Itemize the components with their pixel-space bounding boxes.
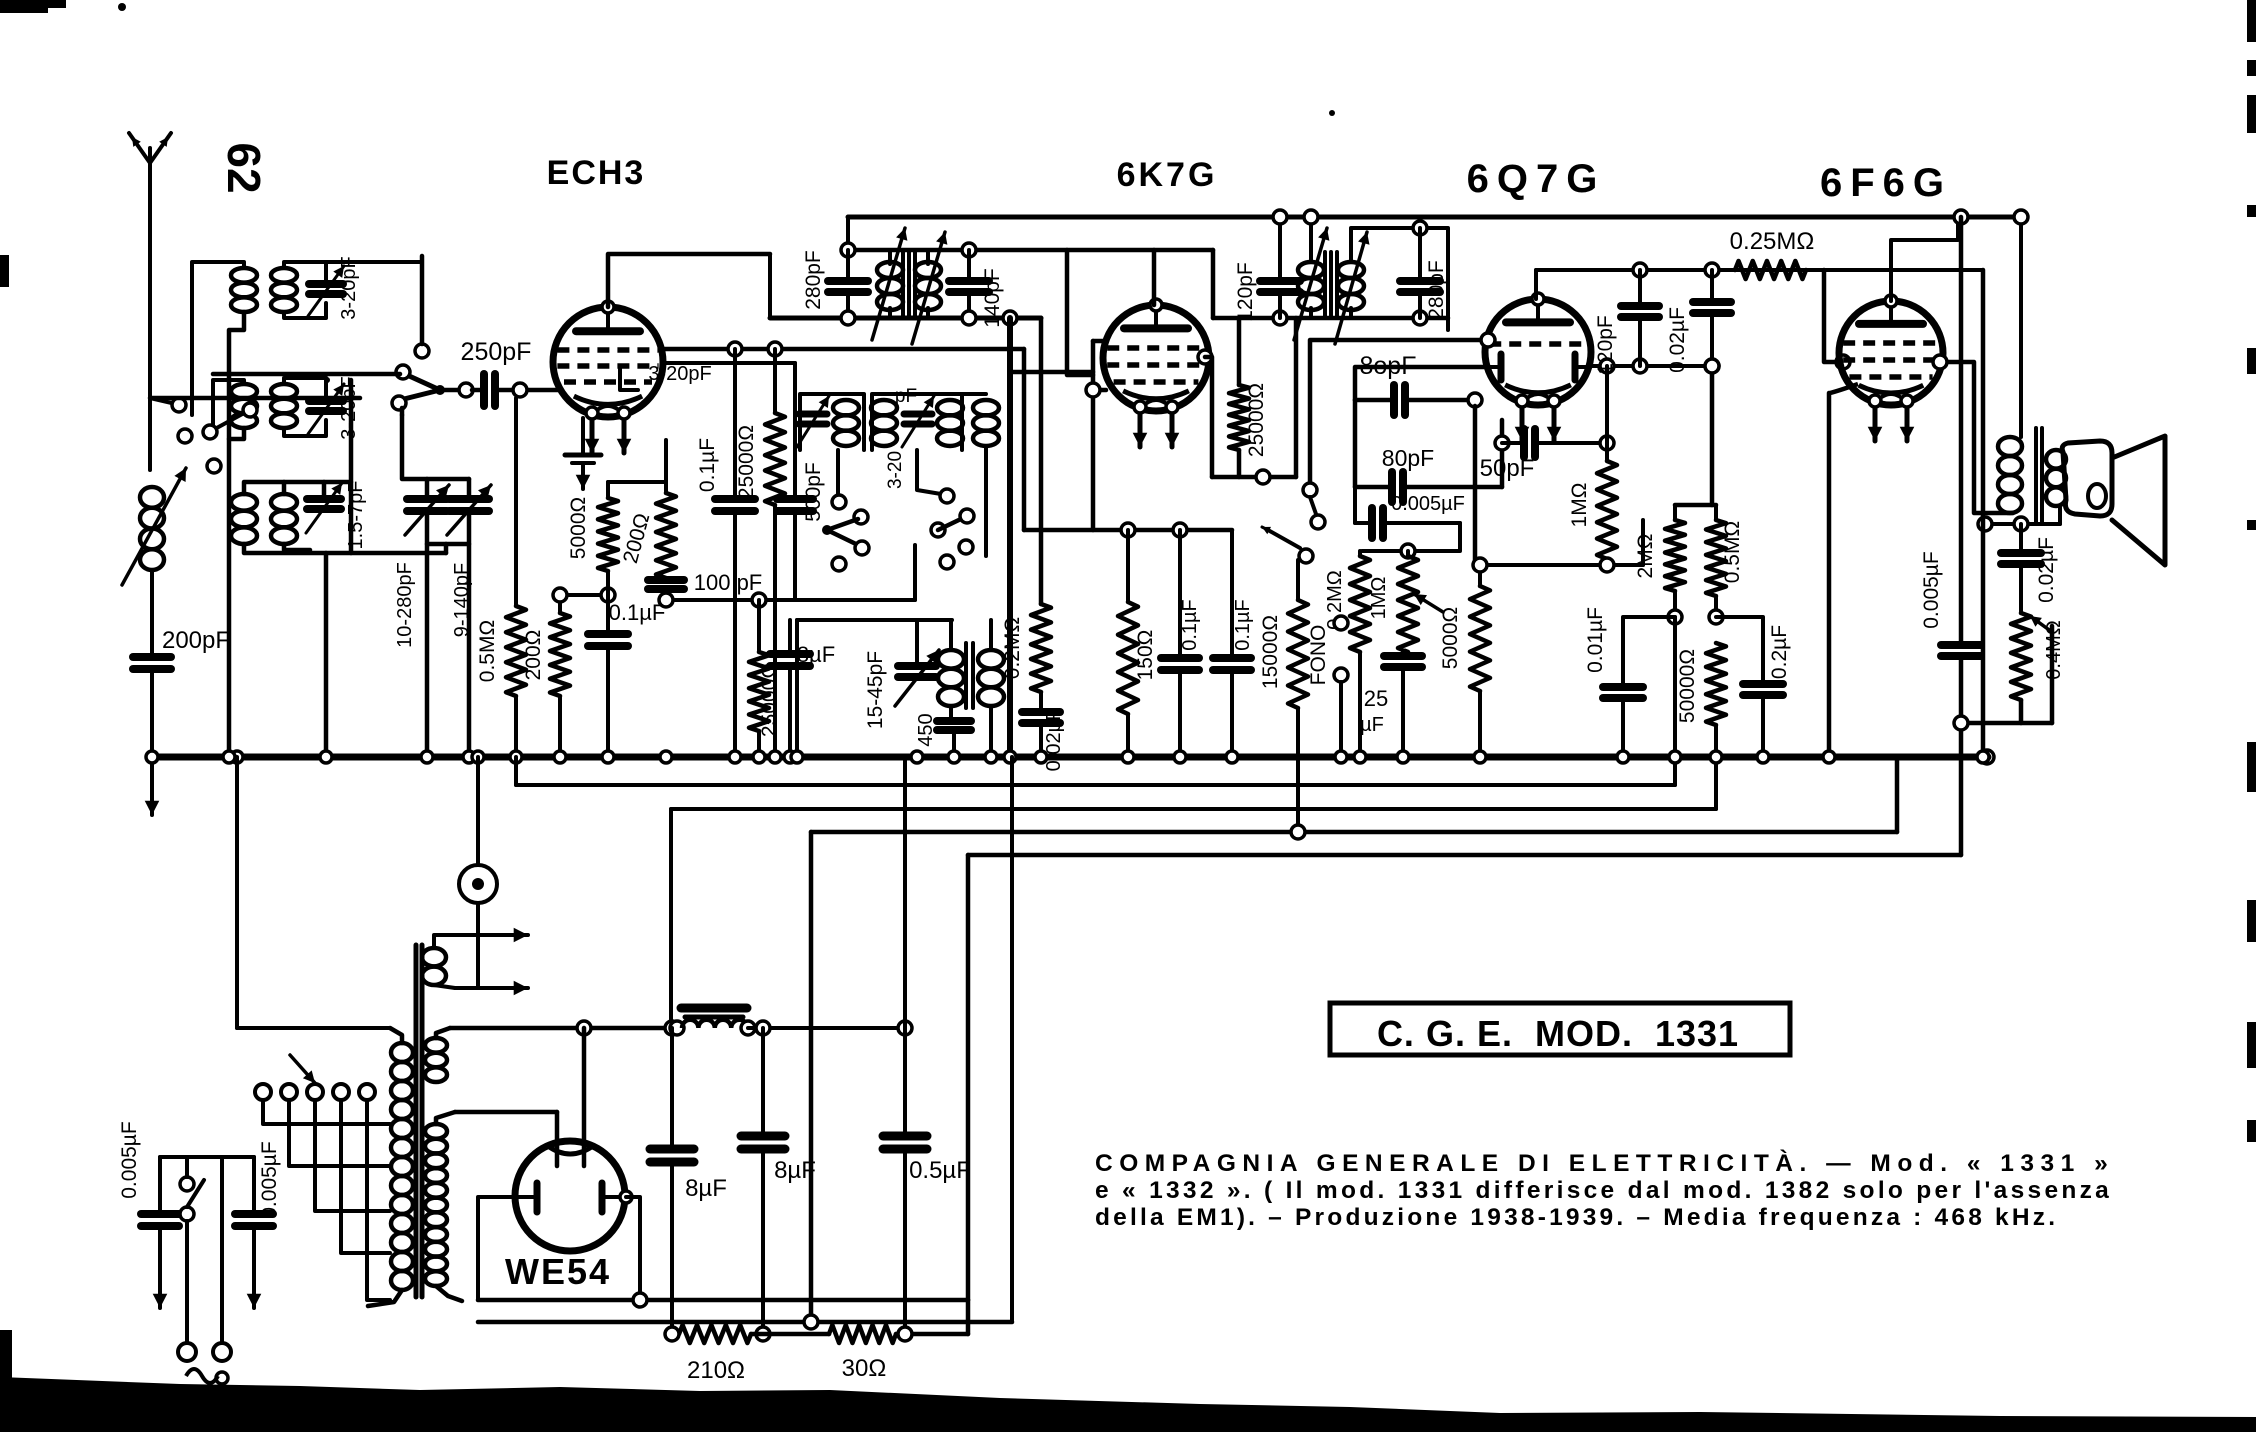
- trimmer C 15-45pF: [898, 662, 936, 670]
- heater arrow 2: [455, 986, 528, 990]
- transformer primary: [390, 1028, 402, 1043]
- svg-text:280pF: 280pF: [802, 250, 825, 310]
- contact band top: [415, 344, 429, 358]
- svg-text:8µF: 8µF: [774, 1157, 816, 1184]
- resistor R 2M: [1673, 505, 1677, 520]
- capacitor C 50pF: [1495, 436, 1509, 450]
- IF2 core: [1323, 252, 1327, 316]
- wire mains a: [185, 1157, 189, 1177]
- capacitor C 140pF: [967, 250, 971, 279]
- capacitor C 0.2uF: [1716, 617, 1763, 682]
- resistor R 15000: [1296, 560, 1300, 600]
- wire grid tops: [1675, 503, 1716, 508]
- wire diode left: [1355, 367, 1488, 400]
- IF1 primary: [888, 250, 892, 264]
- tube 6Q7G: [1485, 299, 1591, 405]
- output transformer secondary: [2046, 450, 2066, 469]
- resistor R 0.25M: [1712, 269, 1735, 271]
- svg-text:6K7G: 6K7G: [1117, 156, 1218, 194]
- resistor R 150 ohm: [1126, 530, 1130, 602]
- wire osc mid: [793, 553, 797, 599]
- svg-text:500pF: 500pF: [802, 462, 825, 522]
- svg-text:62: 62: [218, 142, 270, 193]
- capacitor C 0.1uF b: [733, 349, 737, 497]
- capacitor C 120pF nfb: [1638, 270, 1642, 304]
- wire top rail: [848, 215, 2017, 220]
- wire 6F6G cathode: [1830, 384, 1858, 393]
- wire L1: [514, 757, 518, 785]
- svg-text:25000Ω: 25000Ω: [758, 663, 781, 737]
- capacitor C 0.005uF mains b: [252, 1157, 256, 1212]
- capacitor C 0.02uF out: [2019, 524, 2023, 551]
- svg-text:50pF: 50pF: [1480, 455, 1535, 482]
- ground main: [150, 757, 154, 815]
- wire x1355 down: [1353, 487, 1357, 523]
- svg-text:WE54: WE54: [505, 1251, 611, 1292]
- capacitor C 0.01uF: [1623, 617, 1675, 685]
- resistor R 30 ohm: [751, 1332, 829, 1337]
- wire WE54 left plate: [478, 1197, 517, 1300]
- svg-text:8opF: 8opF: [1360, 352, 1417, 380]
- capacitor C 500pF: [793, 363, 797, 497]
- resistor R 1M vol pot: [1406, 551, 1410, 556]
- transformer HV winding lower: [436, 1112, 455, 1124]
- resistor R 25000 ohm a: [773, 349, 777, 413]
- tube 6F6G: [1839, 301, 1943, 405]
- wire ECH3 anode riser: [768, 254, 772, 318]
- wire WE54 right plate: [626, 1197, 640, 1300]
- switch row2 arm: [213, 412, 246, 430]
- svg-text:0.005µF: 0.005µF: [118, 1121, 141, 1198]
- wire mains b: [220, 1157, 224, 1344]
- osc lower frame: [797, 618, 952, 622]
- osc coil A: [833, 400, 859, 415]
- svg-text:50000Ω: 50000Ω: [1676, 649, 1699, 723]
- svg-text:10-280pF: 10-280pF: [394, 562, 416, 648]
- switch mains: [180, 1177, 194, 1191]
- svg-text:0.1µF: 0.1µF: [1232, 599, 1254, 651]
- svg-text:25000Ω: 25000Ω: [1245, 383, 1268, 457]
- svg-text:8µF: 8µF: [797, 642, 835, 667]
- svg-text:0.01µF: 0.01µF: [1584, 607, 1607, 673]
- svg-text:15000Ω: 15000Ω: [1259, 615, 1282, 689]
- tube 6K7G: [1103, 305, 1209, 411]
- svg-text:9-140pF: 9-140pF: [451, 563, 473, 638]
- resistor R 5000 ohm: [606, 482, 610, 498]
- IF2 secondary top wire: [1351, 228, 1448, 330]
- switch AVC contacts: [1303, 483, 1317, 497]
- trimmer C 3-20 A: [799, 411, 827, 418]
- pilot lamp: [476, 757, 480, 866]
- trimmer C 3-20pF row1: [309, 280, 343, 288]
- wire y530: [1024, 528, 1232, 533]
- wire L4: [968, 853, 1961, 858]
- svg-text:1.5-7pF: 1.5-7pF: [345, 481, 367, 550]
- wire y270 grid line: [1536, 268, 1983, 272]
- wire B+ mid: [748, 1026, 905, 1030]
- svg-text:0.1µF: 0.1µF: [696, 438, 719, 492]
- wire 6K7G aux left: [1010, 370, 1093, 375]
- IF2 primary: [1309, 217, 1313, 262]
- scan artifact top-left corner: [0, 0, 48, 13]
- capacitor C 0.005uF mains a: [158, 1157, 162, 1212]
- wire x1475 down: [1473, 406, 1478, 565]
- svg-text:0.5MΩ: 0.5MΩ: [476, 620, 499, 682]
- resistor R 50000 b: [1706, 643, 1726, 725]
- svg-text:e « 1332 ». ( Il mod. 1331 dif: e « 1332 ». ( Il mod. 1331 differisce da…: [1095, 1177, 2112, 1204]
- capacitor C 250pF: [440, 388, 460, 393]
- wire rect fil: [455, 1110, 557, 1115]
- svg-text:0.1µF: 0.1µF: [609, 600, 666, 625]
- osc module A frame: [800, 394, 864, 450]
- svg-text:ECH3: ECH3: [547, 154, 646, 192]
- capacitor C 8uF osc: [788, 620, 792, 652]
- capacitor C 100pF: [648, 576, 684, 584]
- svg-text:30Ω: 30Ω: [842, 1355, 887, 1382]
- wire diode col2: [1500, 420, 1505, 487]
- wire x1012 down: [1010, 757, 1014, 1322]
- wire 6Q7G plate: [1590, 364, 1712, 368]
- capacitor C 200pF: [133, 653, 171, 661]
- IF1 bottom rail: [770, 316, 1041, 321]
- wire antenna down: [148, 398, 152, 470]
- resistor R 5000 cath: [1478, 565, 1482, 586]
- selector taps: [263, 1100, 390, 1124]
- svg-text:210Ω: 210Ω: [687, 1357, 745, 1384]
- wire row2 top rail: [213, 372, 400, 377]
- svg-text:0.02µF: 0.02µF: [2035, 537, 2058, 603]
- wire ECH3 topcap: [608, 254, 770, 307]
- svg-text:3-20pF: 3-20pF: [648, 363, 711, 385]
- osc coil E: [989, 620, 993, 650]
- svg-text:5000Ω: 5000Ω: [567, 497, 590, 559]
- wire 6K7G topcap: [1152, 250, 1157, 305]
- IF2 secondary: [1349, 308, 1353, 318]
- wire heavy column: [1007, 318, 1013, 757]
- wire y600: [666, 598, 915, 602]
- transformer core: [414, 945, 419, 1297]
- choke filter: [670, 1021, 684, 1035]
- wire cathode net: [560, 593, 608, 597]
- wire 200pF to bus: [150, 669, 154, 757]
- wire L2: [670, 785, 672, 809]
- svg-text:0.5µF: 0.5µF: [909, 1157, 971, 1184]
- speaker driver: [2062, 441, 2112, 516]
- resistor R 25000 ohm b: [757, 600, 761, 652]
- IF1 top wire: [848, 248, 1213, 253]
- svg-text:COMPAGNIA GENERALE DI ELETTRIC: COMPAGNIA GENERALE DI ELETTRICITÀ. — Mod…: [1095, 1149, 2114, 1177]
- capacitor C 0.02uF avc: [1022, 708, 1060, 716]
- wire mains col: [235, 757, 239, 1028]
- svg-text:5000Ω: 5000Ω: [1439, 607, 1462, 669]
- svg-text:0.02µF: 0.02µF: [1666, 307, 1689, 373]
- wire HV return: [478, 1320, 1012, 1325]
- switch osc contact a: [836, 450, 840, 495]
- box CGE model: [1330, 1003, 1790, 1055]
- transformer T3 primary+secondary: [231, 494, 257, 511]
- variable capacitor 10-280pF: [425, 479, 430, 497]
- ground ECH3 cathode: [581, 418, 585, 455]
- resistor R 200 ohm a: [558, 595, 562, 613]
- svg-text:0.1µF: 0.1µF: [1179, 599, 1201, 651]
- wire det to pot: [1362, 523, 1460, 551]
- svg-text:1MΩ: 1MΩ: [1368, 577, 1390, 620]
- switch osc arm2: [931, 523, 945, 537]
- resistor R 0.2M vol: [1358, 551, 1362, 556]
- svg-text:C. G. E. MOD. 1331: C. G. E. MOD. 1331: [1377, 1013, 1739, 1054]
- svg-text:FONO: FONO: [1307, 625, 1330, 686]
- svg-text:120pF: 120pF: [1594, 315, 1617, 375]
- resistor R 0.5M b: [1714, 505, 1718, 520]
- wire grid 6F6G: [1824, 270, 1841, 362]
- capacitor C 450: [937, 717, 971, 725]
- svg-text:250pF: 250pF: [461, 338, 532, 366]
- svg-text:200Ω: 200Ω: [522, 630, 545, 681]
- capacitor C 80pF b: [1355, 485, 1390, 490]
- capacitor C 280pF if2: [1418, 228, 1422, 279]
- wire ECH3 out2: [662, 361, 795, 365]
- wire plates bottom: [478, 1298, 968, 1303]
- wire ECH3 out1: [661, 347, 1024, 352]
- capacitor C 280pF if1: [846, 250, 850, 279]
- osc core: [964, 643, 968, 708]
- wire 6Q7G topcap: [1534, 270, 1538, 299]
- svg-text:pF: pF: [895, 386, 917, 407]
- scan artifact right edge marks: [2247, 0, 2256, 42]
- mains wire top: [237, 1026, 390, 1030]
- scan artifact left edge: [0, 255, 9, 287]
- capacitor C 120pF if2: [1278, 217, 1282, 279]
- osc module B frame: [872, 394, 962, 450]
- wire voicecoil: [2058, 506, 2062, 524]
- svg-text:15-45pF: 15-45pF: [864, 651, 887, 729]
- transformer T2 primary+secondary: [213, 380, 244, 430]
- capacitor C 0.5uF: [903, 1028, 907, 1134]
- selector arrow: [290, 1055, 315, 1083]
- output transformer primary: [1998, 437, 2022, 456]
- resistor R 0.5M ohm: [506, 606, 526, 696]
- wire grid2 down: [514, 398, 518, 606]
- IF2 bottom rail: [1213, 316, 1448, 321]
- heater winding top: [422, 948, 446, 966]
- svg-text:della EM1). – Produzione 1938-: della EM1). – Produzione 1938-1939. – Me…: [1095, 1204, 2058, 1231]
- wire antenna main: [150, 396, 360, 401]
- wire 6K7G plate: [1198, 350, 1212, 364]
- svg-text:200pF: 200pF: [162, 627, 230, 654]
- wire gang top: [402, 415, 469, 479]
- IF1 secondary: [926, 250, 930, 264]
- svg-text:6Q7G: 6Q7G: [1467, 157, 1606, 201]
- capacitor C 80pF a: [1355, 398, 1392, 403]
- svg-text:150Ω: 150Ω: [1134, 630, 1157, 681]
- osc coil B1: [871, 400, 897, 415]
- plug pins: [178, 1343, 196, 1361]
- wire tone: [1961, 721, 2052, 726]
- wire 2M down: [1673, 617, 1677, 785]
- trimmer C 3-20pF row2: [309, 397, 343, 405]
- transformer HV winding upper: [436, 1028, 450, 1038]
- variable capacitor 9-140pF: [467, 479, 472, 497]
- antenna: [129, 133, 171, 163]
- trimmer C 3-20 B: [904, 411, 932, 418]
- svg-text:0.5MΩ: 0.5MΩ: [1721, 521, 1744, 583]
- trimmer C 1.5-7pF: [307, 495, 341, 503]
- svg-text:280pF: 280pF: [1425, 260, 1448, 320]
- capacitor C 0.02uF coup: [1710, 270, 1714, 300]
- wire y565: [1475, 563, 1643, 567]
- svg-text:25000Ω: 25000Ω: [735, 425, 758, 499]
- capacitor C 25uF: [1384, 652, 1422, 660]
- svg-text:3-20pF: 3-20pF: [338, 256, 360, 319]
- wire 6F6G topcap: [1891, 217, 1958, 301]
- wire antenna to 200pF: [150, 570, 154, 655]
- svg-text:0.2µF: 0.2µF: [1768, 625, 1791, 679]
- wire x1355 mid: [1353, 400, 1358, 487]
- IF1 riser: [846, 217, 850, 250]
- speaker cone: [2112, 436, 2165, 565]
- scan artifact bottom band: [0, 1377, 2256, 1432]
- osc coil B2: [937, 400, 963, 415]
- wire L3: [811, 830, 1897, 835]
- svg-text:0.005µF: 0.005µF: [258, 1141, 281, 1218]
- wire 6Q7G grid left: [1310, 340, 1486, 482]
- resistor R 25000 screen: [1237, 318, 1242, 385]
- osc coil D: [949, 620, 953, 650]
- jack FONO: [1334, 616, 1348, 630]
- heater arrow 1: [435, 935, 437, 948]
- wire 5000 top: [608, 480, 666, 484]
- capacitor C 8uF b: [761, 1028, 765, 1134]
- svg-text:120pF: 120pF: [1234, 262, 1257, 322]
- wire OT B+: [2019, 222, 2023, 437]
- resistor R 1M diode load: [1605, 366, 1609, 461]
- svg-text:0.005µF: 0.005µF: [1391, 493, 1465, 515]
- transformer T1 primary+secondary: [192, 262, 244, 415]
- svg-text:6F6G: 6F6G: [1820, 161, 1952, 205]
- svg-text:2MΩ: 2MΩ: [1634, 534, 1657, 579]
- svg-text:25: 25: [1364, 686, 1388, 711]
- voltage selector contacts: [255, 1084, 271, 1100]
- tube WE54 rectifier: [515, 1141, 625, 1251]
- switch band pivot: [435, 385, 445, 395]
- tube ECH3: [553, 307, 663, 417]
- wire row2 frame right: [349, 380, 354, 553]
- resistor R 0.4M: [2011, 613, 2031, 700]
- svg-text:450: 450: [915, 713, 937, 746]
- capacitor C 0.1uF d: [1230, 530, 1234, 656]
- svg-text:8µF: 8µF: [685, 1175, 727, 1202]
- capacitor C 8uF a: [670, 1028, 674, 1147]
- svg-text:3-20: 3-20: [885, 451, 906, 489]
- wire 6F6G plate: [1941, 362, 2013, 513]
- svg-text:1MΩ: 1MΩ: [1568, 483, 1591, 528]
- osc coil C: [973, 400, 999, 415]
- resistor R 200 ohm b: [664, 440, 668, 493]
- IF1 core: [901, 252, 905, 316]
- svg-text:0.25MΩ: 0.25MΩ: [1730, 228, 1815, 255]
- wire nfb column: [1981, 270, 1986, 757]
- wire 6K7G grid return: [1093, 339, 1104, 344]
- wire selector feed: [254, 1156, 263, 1158]
- svg-text:0.005µF: 0.005µF: [1920, 551, 1943, 628]
- svg-text:µF: µF: [1360, 714, 1384, 736]
- svg-text:0.4MΩ: 0.4MΩ: [2043, 620, 2065, 679]
- svg-text:100 pF: 100 pF: [694, 570, 763, 595]
- wire AVC column: [1039, 318, 1044, 604]
- capacitor C 0.1uF c: [1178, 530, 1182, 656]
- plug wave symbol: [186, 1369, 218, 1383]
- output transformer core: [2034, 428, 2038, 522]
- ground bus: [152, 754, 1988, 761]
- capacitor C 0.005uF det: [1355, 521, 1370, 525]
- switch osc arm1: [854, 510, 868, 524]
- resistor R 0.2M avc: [1031, 604, 1051, 692]
- switch osc contact b: [917, 450, 941, 494]
- resistor R 210 ohm: [672, 1332, 679, 1336]
- svg-text:80pF: 80pF: [1382, 445, 1434, 471]
- coil antenna coupling L1: [140, 487, 164, 508]
- capacitor C 0.1uF a: [606, 595, 610, 632]
- capacitor C 0.005uF out: [1959, 217, 1964, 643]
- wire B+ top: [450, 1026, 672, 1031]
- switch antenna arm: [150, 398, 176, 404]
